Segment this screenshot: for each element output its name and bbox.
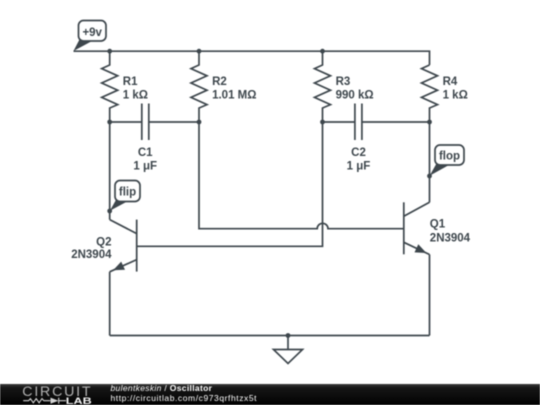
svg-text:LAB: LAB	[66, 396, 92, 405]
svg-text:1.01 MΩ: 1.01 MΩ	[212, 90, 256, 102]
node flop anchor	[427, 174, 432, 179]
node R1-C1	[107, 120, 112, 125]
label flip	[110, 181, 140, 211]
svg-text:+9v: +9v	[82, 27, 102, 39]
wire R3 node down and left to Q2 base	[137, 122, 323, 246]
resistor R3	[315, 51, 331, 122]
svg-text:2N3904: 2N3904	[430, 232, 471, 244]
wire top rail +9v to R4	[74, 51, 430, 65]
ground	[274, 336, 303, 364]
transistor Q1	[404, 202, 430, 254]
svg-text:R4: R4	[443, 76, 458, 88]
svg-text:Q2: Q2	[96, 236, 111, 248]
svg-text:1 μF: 1 μF	[133, 161, 157, 173]
footer bar	[0, 384, 540, 405]
transistor Q2	[110, 220, 137, 272]
resistor R1	[102, 51, 118, 122]
svg-text:flip: flip	[119, 186, 136, 198]
svg-text:R3: R3	[336, 76, 351, 88]
wire R1 node to Q2 collector	[109, 122, 111, 220]
node R4-C2	[427, 120, 432, 125]
svg-text:1 kΩ: 1 kΩ	[123, 90, 148, 102]
label +9v	[74, 21, 107, 52]
resistor R2	[191, 51, 207, 122]
svg-text:flop: flop	[439, 151, 460, 163]
node ground	[286, 333, 291, 338]
label flop	[430, 145, 464, 176]
svg-text:R1: R1	[123, 76, 138, 88]
node dots	[107, 49, 432, 338]
svg-text:C1: C1	[138, 147, 153, 159]
CircuitLab logo	[22, 384, 91, 405]
resistor R4	[422, 65, 438, 122]
capacitor C1	[110, 104, 199, 141]
capacitor C2	[323, 104, 430, 141]
svg-text:R2: R2	[212, 76, 227, 88]
svg-text:2N3904: 2N3904	[71, 249, 112, 261]
svg-text:C2: C2	[351, 147, 366, 159]
node rail-R1	[107, 49, 112, 54]
wire Q1 emitter to bottom rail	[429, 255, 431, 336]
node rail-R3	[320, 49, 325, 54]
node R3-C2	[320, 120, 325, 125]
wire R2 node down and right to Q1 base with hop	[199, 122, 404, 229]
wire R4 node to Q1 collector	[429, 122, 431, 202]
wire Q2 emitter to bottom rail	[109, 272, 111, 336]
svg-text:1 μF: 1 μF	[347, 161, 371, 173]
wire bottom rail	[110, 335, 430, 337]
node rail-R2	[197, 49, 202, 54]
svg-text:Q1: Q1	[430, 219, 446, 231]
svg-text:1 kΩ: 1 kΩ	[443, 90, 468, 102]
node flip anchor	[107, 209, 112, 214]
node R2-C1	[197, 120, 202, 125]
svg-text:990 kΩ: 990 kΩ	[336, 90, 374, 102]
